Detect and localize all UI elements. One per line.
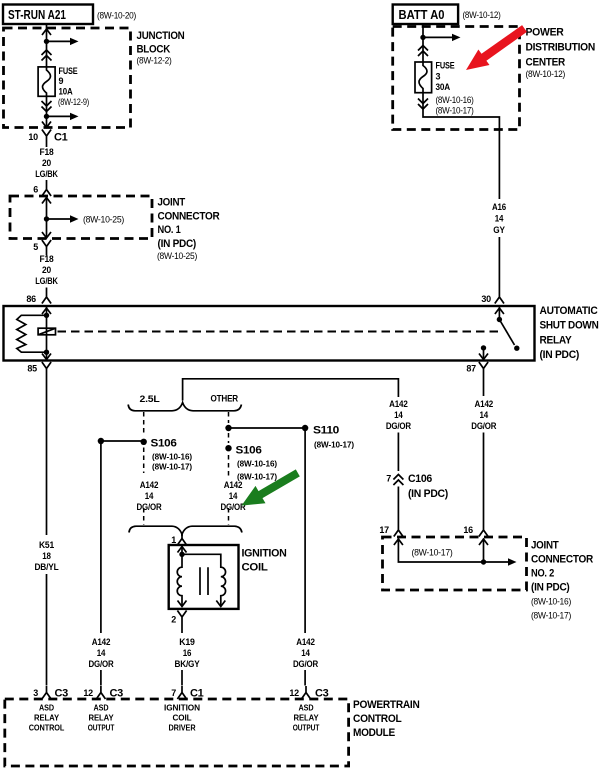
svg-text:(8W-10-16): (8W-10-16) bbox=[436, 95, 474, 106]
arrowhead into relay pin 86 bbox=[42, 308, 51, 314]
label F18 20 LG/BK bbox=[35, 147, 58, 179]
svg-text:A142: A142 bbox=[92, 637, 111, 647]
wire A142 relay 87 branch segment 1 bbox=[483, 375, 485, 396]
junction dot in joint connector no.1 bbox=[44, 216, 49, 221]
svg-text:(8W-10-12): (8W-10-12) bbox=[463, 10, 501, 21]
svg-text:12: 12 bbox=[83, 688, 93, 698]
splice S106 (2.5L) bbox=[141, 438, 193, 472]
svg-text:SHUT DOWN: SHUT DOWN bbox=[540, 320, 599, 332]
label F18 20 LG/BK bbox=[35, 254, 58, 286]
svg-text:A142: A142 bbox=[224, 480, 243, 490]
connector C3 pin 12 (left) bbox=[83, 686, 123, 700]
relay internal dashed link bbox=[58, 331, 504, 333]
arrowhead into joint connector no.1 bbox=[42, 198, 51, 204]
svg-text:IGNITION: IGNITION bbox=[164, 703, 200, 713]
svg-text:C106: C106 bbox=[408, 473, 432, 485]
label IGNITION COIL DRIVER bbox=[164, 703, 200, 733]
svg-text:DG/OR: DG/OR bbox=[89, 659, 115, 669]
connector pin 86 bbox=[26, 291, 51, 305]
node ST-RUN A21 bbox=[3, 5, 93, 25]
wire K19 segment 2 bbox=[181, 670, 183, 686]
label K19 16 BK/GY bbox=[175, 637, 200, 669]
connector chevrons above fuse 3 bbox=[418, 46, 428, 57]
svg-text:RELAY: RELAY bbox=[34, 713, 59, 723]
svg-text:20: 20 bbox=[42, 265, 51, 275]
OTHER branch dashed wire 4 bbox=[228, 508, 230, 525]
label AUTOMATIC SHUT DOWN RELAY bbox=[540, 305, 599, 361]
label A142 14 DG/OR (left output) bbox=[89, 637, 115, 669]
svg-text:DISTRIBUTION: DISTRIBUTION bbox=[526, 42, 596, 54]
wire brace to coil pin 1 bbox=[181, 533, 183, 536]
svg-text:COIL: COIL bbox=[242, 562, 269, 574]
svg-text:JUNCTION: JUNCTION bbox=[137, 30, 185, 42]
svg-text:NO. 2: NO. 2 bbox=[531, 568, 554, 580]
svg-text:F18: F18 bbox=[40, 254, 54, 264]
wire from BATT A0 to fuse 3 bbox=[422, 24, 424, 62]
svg-text:ASD: ASD bbox=[299, 703, 314, 713]
svg-text:BK/GY: BK/GY bbox=[175, 659, 200, 669]
svg-text:(8W-10-25): (8W-10-25) bbox=[157, 251, 197, 262]
label JOINT CONNECTOR NO. 2 bbox=[531, 540, 593, 622]
label FUSE 3 30A (8W-10-16) (8W-10-17) bbox=[436, 61, 474, 117]
svg-text:(8W-10-17): (8W-10-17) bbox=[314, 440, 354, 450]
arrowhead exiting relay pin 85 bbox=[42, 354, 51, 360]
svg-text:DG/OR: DG/OR bbox=[137, 502, 163, 512]
corner junction dot bbox=[98, 438, 104, 444]
connector C1 pin 7 bbox=[171, 686, 203, 700]
junction dot below fuse 9 bbox=[44, 114, 49, 119]
fuse F3 body bbox=[415, 62, 432, 93]
node A0 junction dot bbox=[420, 35, 425, 40]
wire A142 distribution branch bbox=[183, 379, 399, 401]
label POWER DISTRIBUTION CENTER bbox=[526, 27, 596, 81]
svg-text:7: 7 bbox=[171, 688, 176, 698]
splice S110 junction dot (OTHER) bbox=[225, 425, 231, 431]
svg-text:30A: 30A bbox=[436, 82, 451, 92]
svg-text:17: 17 bbox=[379, 525, 389, 535]
svg-text:FUSE: FUSE bbox=[436, 61, 455, 71]
svg-text:CENTER: CENTER bbox=[526, 57, 566, 69]
svg-text:BLOCK: BLOCK bbox=[137, 44, 171, 56]
branch arrow right (PDC) bbox=[423, 34, 461, 41]
svg-text:C1: C1 bbox=[54, 132, 68, 144]
junction block dashed box bbox=[4, 28, 131, 128]
coil core lines bbox=[200, 567, 208, 595]
2.5L branch dashed wire 2 bbox=[143, 448, 145, 474]
arrowhead coil primary bottom bbox=[178, 601, 187, 607]
branch arrow right (junction block bottom) bbox=[47, 113, 79, 120]
green callout arrow bbox=[242, 469, 300, 505]
joint connector no.1 dashed box bbox=[10, 196, 152, 239]
arrowhead exiting joint connector no.1 bbox=[42, 232, 51, 238]
wire through joint connector no.1 bbox=[46, 197, 48, 238]
connector chevrons below fuse 3 bbox=[418, 99, 428, 110]
svg-text:A142: A142 bbox=[389, 399, 408, 409]
relay resistor bbox=[17, 315, 47, 352]
svg-text:DG/OR: DG/OR bbox=[471, 421, 497, 431]
svg-text:A142: A142 bbox=[296, 637, 315, 647]
svg-text:FUSE: FUSE bbox=[59, 66, 78, 76]
wire F18 segment 4 bbox=[46, 288, 48, 291]
svg-text:14: 14 bbox=[145, 491, 154, 501]
bottom brace bbox=[129, 526, 242, 534]
svg-text:OUTPUT: OUTPUT bbox=[293, 723, 320, 733]
label A142 14 DG/OR (87 wire) bbox=[471, 399, 497, 431]
svg-text:K51: K51 bbox=[39, 540, 54, 550]
JC2 internal junction dot bbox=[481, 559, 486, 564]
arrowhead into junction block bbox=[42, 29, 51, 35]
arrowhead exiting relay pin 87 bbox=[479, 354, 488, 360]
automatic shut down relay box bbox=[4, 306, 535, 361]
svg-text:3: 3 bbox=[436, 72, 441, 82]
svg-text:ST-RUN A21: ST-RUN A21 bbox=[8, 7, 66, 22]
svg-text:RELAY: RELAY bbox=[89, 713, 114, 723]
connector pin 87 bbox=[466, 362, 488, 375]
svg-text:3: 3 bbox=[33, 688, 38, 698]
svg-text:14: 14 bbox=[229, 491, 238, 501]
wire F18 segment 3 bbox=[46, 253, 48, 256]
arrowhead into JC2 pin 16 bbox=[479, 539, 488, 545]
svg-text:14: 14 bbox=[495, 214, 504, 224]
svg-text:JOINT: JOINT bbox=[531, 540, 559, 552]
svg-text:BATT A0: BATT A0 bbox=[399, 7, 445, 22]
svg-text:NO. 1: NO. 1 bbox=[158, 224, 181, 236]
coil junction dot bbox=[179, 552, 184, 557]
svg-text:RELAY: RELAY bbox=[294, 713, 319, 723]
svg-text:12: 12 bbox=[289, 688, 299, 698]
wire A142 output (2.5L) segment 1 bbox=[100, 441, 102, 633]
label IGNITION COIL bbox=[242, 548, 287, 574]
svg-text:CONTROL: CONTROL bbox=[353, 713, 402, 725]
wire A142 output (S110) segment 1 bbox=[304, 428, 306, 633]
relay pin 87 wire bbox=[483, 348, 485, 360]
label A142 14 DG/OR (C106 wire) bbox=[386, 399, 412, 431]
label JOINT CONNECTOR NO. 1 bbox=[157, 197, 220, 263]
arrowhead into relay pin 30 bbox=[495, 308, 504, 314]
svg-text:(IN PDC): (IN PDC) bbox=[158, 238, 197, 250]
svg-text:DG/OR: DG/OR bbox=[386, 421, 412, 431]
svg-text:A16: A16 bbox=[492, 202, 506, 212]
splice link wire to output bbox=[101, 440, 144, 442]
connector pin 16 bbox=[463, 524, 488, 537]
wire K51 segment 2 bbox=[46, 574, 48, 686]
svg-text:POWER: POWER bbox=[526, 27, 564, 39]
svg-text:86: 86 bbox=[26, 294, 36, 304]
svg-text:2.5L: 2.5L bbox=[140, 394, 161, 404]
label POWERTRAIN CONTROL MODULE bbox=[353, 699, 420, 739]
OTHER branch dashed wire bbox=[228, 412, 230, 423]
svg-text:10: 10 bbox=[28, 132, 38, 142]
JC2 pin16 internal wire bbox=[483, 539, 485, 563]
2.5L branch dashed wire bbox=[143, 412, 145, 436]
relay coil wire pin 86 to 85 bbox=[46, 307, 48, 360]
coil entry wire bbox=[181, 545, 183, 554]
svg-text:S106: S106 bbox=[236, 445, 262, 457]
label JUNCTION BLOCK bbox=[137, 30, 185, 67]
svg-text:IGNITION: IGNITION bbox=[242, 548, 287, 560]
svg-text:20: 20 bbox=[42, 158, 51, 168]
svg-text:DG/OR: DG/OR bbox=[293, 659, 319, 669]
connector C106 pin 7 bbox=[386, 473, 448, 500]
svg-text:(8W-10-17): (8W-10-17) bbox=[531, 611, 571, 622]
junction dot relay top bbox=[44, 313, 49, 318]
svg-text:(8W-10-17): (8W-10-17) bbox=[237, 472, 277, 482]
svg-text:LG/BK: LG/BK bbox=[35, 169, 58, 179]
arrowhead into JC2 pin 17 bbox=[394, 539, 403, 545]
junction dot relay bottom bbox=[44, 350, 49, 355]
svg-text:JOINT: JOINT bbox=[158, 197, 186, 209]
svg-text:DRIVER: DRIVER bbox=[169, 723, 196, 733]
svg-text:ASD: ASD bbox=[39, 703, 54, 713]
svg-text:18: 18 bbox=[42, 551, 51, 561]
svg-text:5: 5 bbox=[33, 242, 38, 252]
svg-text:16: 16 bbox=[463, 525, 473, 535]
arrowhead coil secondary bottom bbox=[216, 601, 225, 607]
relay coil symbol bbox=[38, 328, 55, 335]
svg-text:2: 2 bbox=[171, 615, 176, 625]
coil secondary winding bbox=[182, 554, 226, 606]
svg-text:(8W-10-17): (8W-10-17) bbox=[436, 106, 474, 117]
svg-text:MODULE: MODULE bbox=[353, 727, 395, 739]
2.5L branch dashed wire 3 bbox=[143, 508, 145, 525]
svg-text:CONTROL: CONTROL bbox=[29, 723, 65, 733]
splice link to S110 bbox=[229, 427, 306, 429]
svg-text:(8W-10-20): (8W-10-20) bbox=[97, 11, 136, 22]
svg-text:7: 7 bbox=[386, 474, 391, 484]
svg-text:85: 85 bbox=[27, 364, 37, 374]
label ASD RELAY CONTROL bbox=[29, 703, 65, 733]
svg-text:(8W-10-16): (8W-10-16) bbox=[152, 452, 192, 462]
label FUSE 9 10A (8W-12-9) bbox=[58, 66, 89, 108]
branch arrow right (junction block top) bbox=[47, 38, 79, 45]
wire A142 output (S110) segment 2 bbox=[304, 670, 306, 686]
svg-text:OTHER: OTHER bbox=[211, 394, 239, 404]
ignition coil box bbox=[169, 545, 239, 609]
splice S106 (OTHER) bbox=[225, 445, 277, 482]
svg-text:(IN PDC): (IN PDC) bbox=[540, 349, 580, 361]
joint connector no.2 dashed box bbox=[383, 537, 527, 590]
svg-text:F18: F18 bbox=[40, 147, 54, 157]
label A16 14 GY bbox=[492, 202, 506, 235]
svg-text:14: 14 bbox=[301, 648, 310, 658]
relay switch bbox=[497, 317, 520, 351]
svg-text:14: 14 bbox=[394, 410, 403, 420]
svg-text:CONNECTOR: CONNECTOR bbox=[158, 211, 220, 223]
label ASD RELAY OUTPUT (right) bbox=[293, 703, 320, 733]
connector pin 85 bbox=[27, 362, 51, 375]
node A21 junction dot bbox=[44, 39, 49, 44]
connector C3 pin 12 (right) bbox=[289, 686, 328, 700]
connector pin 5 bbox=[33, 240, 51, 253]
branch arrow right (8W-10-25) bbox=[47, 215, 125, 226]
svg-text:10A: 10A bbox=[59, 87, 74, 97]
power distribution center dashed box bbox=[393, 27, 520, 130]
label A142 14 DG/OR (right output) bbox=[293, 637, 319, 669]
svg-text:RELAY: RELAY bbox=[540, 335, 573, 347]
svg-text:(8W-10-12): (8W-10-12) bbox=[526, 69, 566, 80]
svg-text:S110: S110 bbox=[313, 425, 339, 437]
svg-text:(8W-12-9): (8W-12-9) bbox=[58, 97, 89, 108]
svg-text:(8W-10-16): (8W-10-16) bbox=[237, 459, 277, 469]
svg-text:ASD: ASD bbox=[94, 703, 109, 713]
OTHER branch dashed wire 3 bbox=[228, 455, 230, 477]
connector C1 pin 10 bbox=[28, 130, 67, 144]
connector chevrons above fuse 9 bbox=[42, 50, 52, 61]
coil primary winding bbox=[177, 554, 182, 606]
wire K51 segment 1 bbox=[46, 375, 48, 535]
label A142 14 DG/OR (2.5L branch) bbox=[137, 480, 163, 512]
svg-text:OUTPUT: OUTPUT bbox=[88, 723, 115, 733]
OTHER branch dashed wire 2 bbox=[228, 433, 230, 443]
connector pin 2 bbox=[171, 611, 186, 625]
svg-text:87: 87 bbox=[466, 364, 476, 374]
svg-text:(IN PDC): (IN PDC) bbox=[531, 582, 570, 594]
wire F18 segment 1 bbox=[46, 143, 48, 148]
wire A142 below C106 bbox=[397, 487, 399, 524]
wire below fuse 9 bbox=[46, 96, 48, 127]
wire A142 relay 87 branch segment 2 bbox=[483, 433, 485, 524]
top brace bbox=[128, 403, 241, 411]
relay pin 87 dot bbox=[481, 345, 486, 350]
JC2 internal bus wire bbox=[398, 539, 516, 566]
wire from ST-RUN A21 into junction block bbox=[46, 24, 48, 67]
wire A16 segment 2 bbox=[498, 237, 500, 291]
svg-text:14: 14 bbox=[97, 648, 106, 658]
svg-text:9: 9 bbox=[59, 76, 64, 86]
label K51 18 DB/YL bbox=[35, 540, 60, 572]
svg-text:A142: A142 bbox=[475, 399, 494, 409]
svg-text:GY: GY bbox=[493, 225, 505, 235]
svg-text:(8W-10-16): (8W-10-16) bbox=[531, 597, 571, 608]
svg-text:S106: S106 bbox=[151, 438, 177, 450]
wire A142 output (2.5L) segment 2 bbox=[100, 670, 102, 686]
connector pin 17 bbox=[379, 524, 403, 537]
node BATT A0 bbox=[393, 5, 458, 25]
svg-text:CONNECTOR: CONNECTOR bbox=[531, 554, 593, 566]
svg-text:(8W-10-17): (8W-10-17) bbox=[412, 548, 453, 559]
connector C3 pin 3 bbox=[33, 686, 68, 700]
label ASD RELAY OUTPUT (left) bbox=[88, 703, 115, 733]
svg-text:6: 6 bbox=[33, 185, 38, 195]
connector pin 6 bbox=[33, 183, 51, 196]
fuse F9 body bbox=[38, 67, 55, 96]
red callout arrow bbox=[466, 25, 527, 70]
svg-text:K19: K19 bbox=[179, 637, 195, 647]
svg-text:AUTOMATIC: AUTOMATIC bbox=[540, 305, 598, 317]
svg-text:14: 14 bbox=[480, 410, 489, 420]
arrowhead exiting junction block bbox=[42, 122, 51, 128]
wire K19 segment 1 bbox=[181, 624, 183, 634]
svg-text:POWERTRAIN: POWERTRAIN bbox=[353, 699, 420, 711]
svg-text:(IN PDC): (IN PDC) bbox=[408, 488, 449, 500]
svg-text:DG/OR: DG/OR bbox=[221, 502, 247, 512]
label A142 14 DG/OR (OTHER branch) bbox=[221, 480, 247, 512]
svg-text:(8W-10-25): (8W-10-25) bbox=[83, 215, 124, 226]
svg-text:(8W-10-17): (8W-10-17) bbox=[152, 462, 192, 472]
wire A142 to C106 bbox=[397, 433, 399, 472]
wire below fuse 3 to pin 30 bbox=[423, 93, 499, 199]
svg-text:30: 30 bbox=[481, 294, 491, 304]
svg-text:COIL: COIL bbox=[173, 713, 192, 723]
connector chevrons below fuse 9 bbox=[42, 101, 52, 112]
svg-text:16: 16 bbox=[183, 648, 192, 658]
connector pin 30 bbox=[481, 291, 504, 305]
arrowhead into ignition coil bbox=[178, 547, 187, 553]
svg-text:(8W-12-2): (8W-12-2) bbox=[137, 56, 172, 67]
svg-text:1: 1 bbox=[171, 535, 176, 545]
powertrain control module dashed box bbox=[5, 699, 349, 766]
connector pin 1 bbox=[171, 532, 186, 545]
splice S110 bbox=[302, 425, 354, 450]
svg-text:DB/YL: DB/YL bbox=[35, 562, 60, 572]
relay switch pivot wire bbox=[498, 307, 500, 320]
svg-text:A142: A142 bbox=[140, 480, 159, 490]
wire F18 segment 2 bbox=[46, 180, 48, 183]
svg-text:LG/BK: LG/BK bbox=[35, 276, 58, 286]
